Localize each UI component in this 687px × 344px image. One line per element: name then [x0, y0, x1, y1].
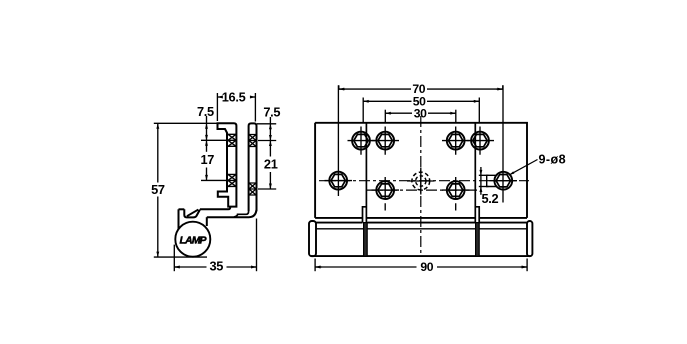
hole A4	[471, 132, 489, 150]
dimension 57	[154, 123, 218, 257]
svg-text:35: 35	[209, 259, 223, 274]
dimension 70	[339, 85, 503, 89]
barrel tangent line	[316, 228, 527, 230]
plate bottom edge segments	[315, 217, 527, 219]
svg-text:17: 17	[200, 152, 214, 167]
arm left face	[178, 209, 180, 229]
hidden hole C center dashed	[412, 172, 430, 190]
svg-text:57: 57	[151, 182, 165, 197]
barrel bottom line	[311, 255, 531, 257]
dimension 7.5 right and 21	[257, 117, 276, 189]
dimension 16.5	[217, 93, 255, 122]
hole B2	[447, 181, 465, 199]
barrel top line	[316, 222, 527, 224]
right end cap	[527, 221, 532, 256]
row3 horizontal centerline	[366, 189, 482, 191]
dimension 35	[174, 219, 256, 272]
dimension 30	[385, 110, 456, 123]
svg-text:90: 90	[420, 260, 433, 274]
right knuckle tab	[475, 207, 479, 223]
hole A2	[376, 132, 394, 150]
arm top surface right segment with fillet up to leaf	[200, 207, 230, 209]
hole W2 right wing with slot	[494, 172, 512, 190]
hole W1 left wing	[329, 172, 347, 190]
dimension 7.5 left and 17	[201, 116, 227, 180]
hole A3	[447, 132, 465, 150]
svg-text:21: 21	[264, 157, 278, 172]
row2 horizontal centerline	[319, 180, 529, 182]
left leaf plate outline	[218, 123, 237, 206]
svg-text:30: 30	[414, 106, 427, 120]
dimension 5.2	[479, 167, 489, 195]
svg-text:9-ø8: 9-ø8	[539, 152, 567, 166]
label 9-ø8 with leader	[510, 160, 538, 175]
screw symbol S3 on right plate	[249, 135, 256, 147]
svg-text:7.5: 7.5	[263, 104, 280, 119]
left knuckle joint band	[364, 223, 368, 257]
screw symbol S2 on left plate	[228, 174, 236, 186]
arm bottom edge with fillet to right face	[207, 210, 257, 217]
left end cap	[309, 221, 316, 256]
inner leaf left edge	[365, 123, 367, 223]
barrel circle	[175, 222, 210, 257]
ledge between plates	[234, 211, 249, 217]
fixed body: right plate + arm outline	[249, 123, 257, 211]
logo text in circle	[180, 235, 208, 247]
right knuckle joint band	[476, 223, 480, 257]
main vertical centerline	[420, 116, 422, 257]
hole B1	[376, 181, 394, 199]
arm groove and lip	[184, 209, 200, 217]
arm left wall	[206, 217, 208, 226]
hole A1	[352, 132, 370, 150]
slot 5.2 at W2	[487, 175, 498, 186]
screw symbol S4 on right plate	[249, 183, 256, 195]
svg-text:5.2: 5.2	[481, 191, 498, 206]
svg-text:LAMP: LAMP	[180, 235, 208, 247]
svg-text:7.5: 7.5	[197, 104, 214, 119]
screw symbol S1 on left plate	[228, 134, 236, 146]
dimension 90	[315, 259, 527, 272]
inner leaf right edge	[474, 123, 476, 223]
outer plate outline	[315, 123, 527, 218]
dimension 50	[363, 98, 479, 123]
arm top surface left segment	[179, 208, 185, 210]
lip inner edge	[187, 210, 198, 217]
svg-text:16.5: 16.5	[222, 90, 246, 105]
left knuckle tab	[363, 207, 367, 223]
